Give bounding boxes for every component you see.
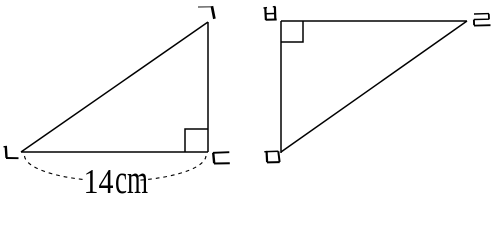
- right angle marker at top-left: [281, 21, 303, 42]
- label digeut (bottom-right vertex): [213, 152, 230, 163]
- triangle ABC (left) hypotenuse wire: [21, 22, 208, 152]
- label bieup (top-left vertex): [264, 7, 277, 20]
- svg-text:14: 14: [84, 162, 114, 196]
- triangle DEF hypotenuse: [281, 21, 467, 152]
- triangle ABC right vertical side: [207, 22, 209, 152]
- right angle marker at C: [185, 129, 208, 152]
- triangle DEF (right) top side: [281, 20, 467, 22]
- white mask behind 14cm: [85, 162, 140, 195]
- triangle DEF left vertical side: [280, 21, 282, 153]
- label rieul (top-right vertex): [474, 14, 491, 26]
- label mieum (bottom-left vertex): [264, 151, 279, 162]
- label nieun (bottom-left vertex): [4, 146, 19, 158]
- svg-text:cm: cm: [115, 156, 148, 196]
- triangle ABC base: [21, 151, 208, 153]
- label giyeok (top vertex): [198, 6, 214, 19]
- dashed dimension arc: [25, 156, 207, 181]
